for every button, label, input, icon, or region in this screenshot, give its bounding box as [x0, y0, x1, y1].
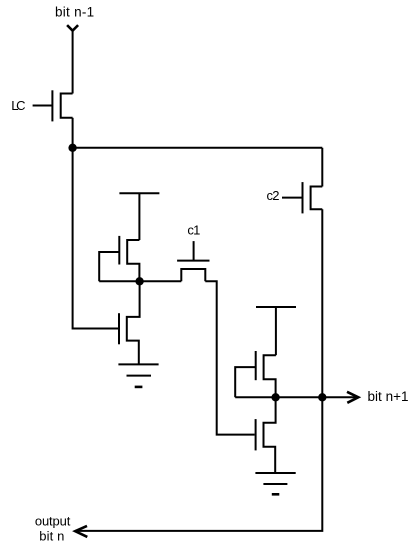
svg-text:bit n: bit n [39, 528, 64, 543]
node A junction dot [68, 144, 76, 152]
supply tap T-bar (right) [256, 307, 296, 355]
transistor c2 [282, 182, 322, 213]
wire c1 right side down to M4 gate lead [205, 281, 254, 434]
transistor c1 (horizontal pass transistor) [177, 241, 209, 281]
svg-text:bit n+1: bit n+1 [368, 389, 409, 404]
wire c2 source down right rail to node D [321, 209, 323, 397]
output arrow head bit n (pointing left) [75, 526, 87, 537]
node B junction dot [135, 277, 143, 285]
wire right rail down to c2 drain [321, 148, 323, 187]
wire left rail: node A down to M1 gate lead [73, 148, 119, 329]
input arrow (Y head) on bit n-1 [67, 25, 78, 31]
transistor M1 (lower left) [119, 281, 140, 364]
node D junction dot (right rail) [318, 393, 326, 401]
wire bit n-1 input to LC drain [72, 30, 74, 93]
ground (right) [255, 473, 295, 494]
svg-text:c2: c2 [267, 188, 280, 203]
ground (left) [118, 364, 158, 387]
transistor M4 (lower right) [256, 397, 276, 473]
svg-text:c1: c1 [187, 223, 200, 238]
transistor M2 (upper left, diode-connected) [119, 236, 139, 281]
wire node C horizontal to bit n+1 arrow [235, 396, 358, 398]
transistor LC [33, 90, 73, 121]
node C junction dot [271, 393, 279, 401]
transistor M3 (upper right, diode-connected) [256, 351, 276, 397]
wire node A to right rail (top horizontal) [73, 147, 323, 149]
wire M2 gate loop to node B [99, 252, 119, 281]
supply tap T-bar (left) [119, 193, 159, 240]
svg-text:LC: LC [11, 98, 25, 113]
svg-text:output: output [35, 513, 71, 528]
wire M3 gate loop to node C [235, 367, 256, 397]
svg-text:bit n-1: bit n-1 [55, 5, 94, 20]
output arrow head bit n+1 [347, 392, 358, 403]
wire node B horizontal [99, 280, 181, 282]
wire LC source to node A [72, 118, 74, 148]
wire node D down and left to output bit n [75, 397, 322, 531]
